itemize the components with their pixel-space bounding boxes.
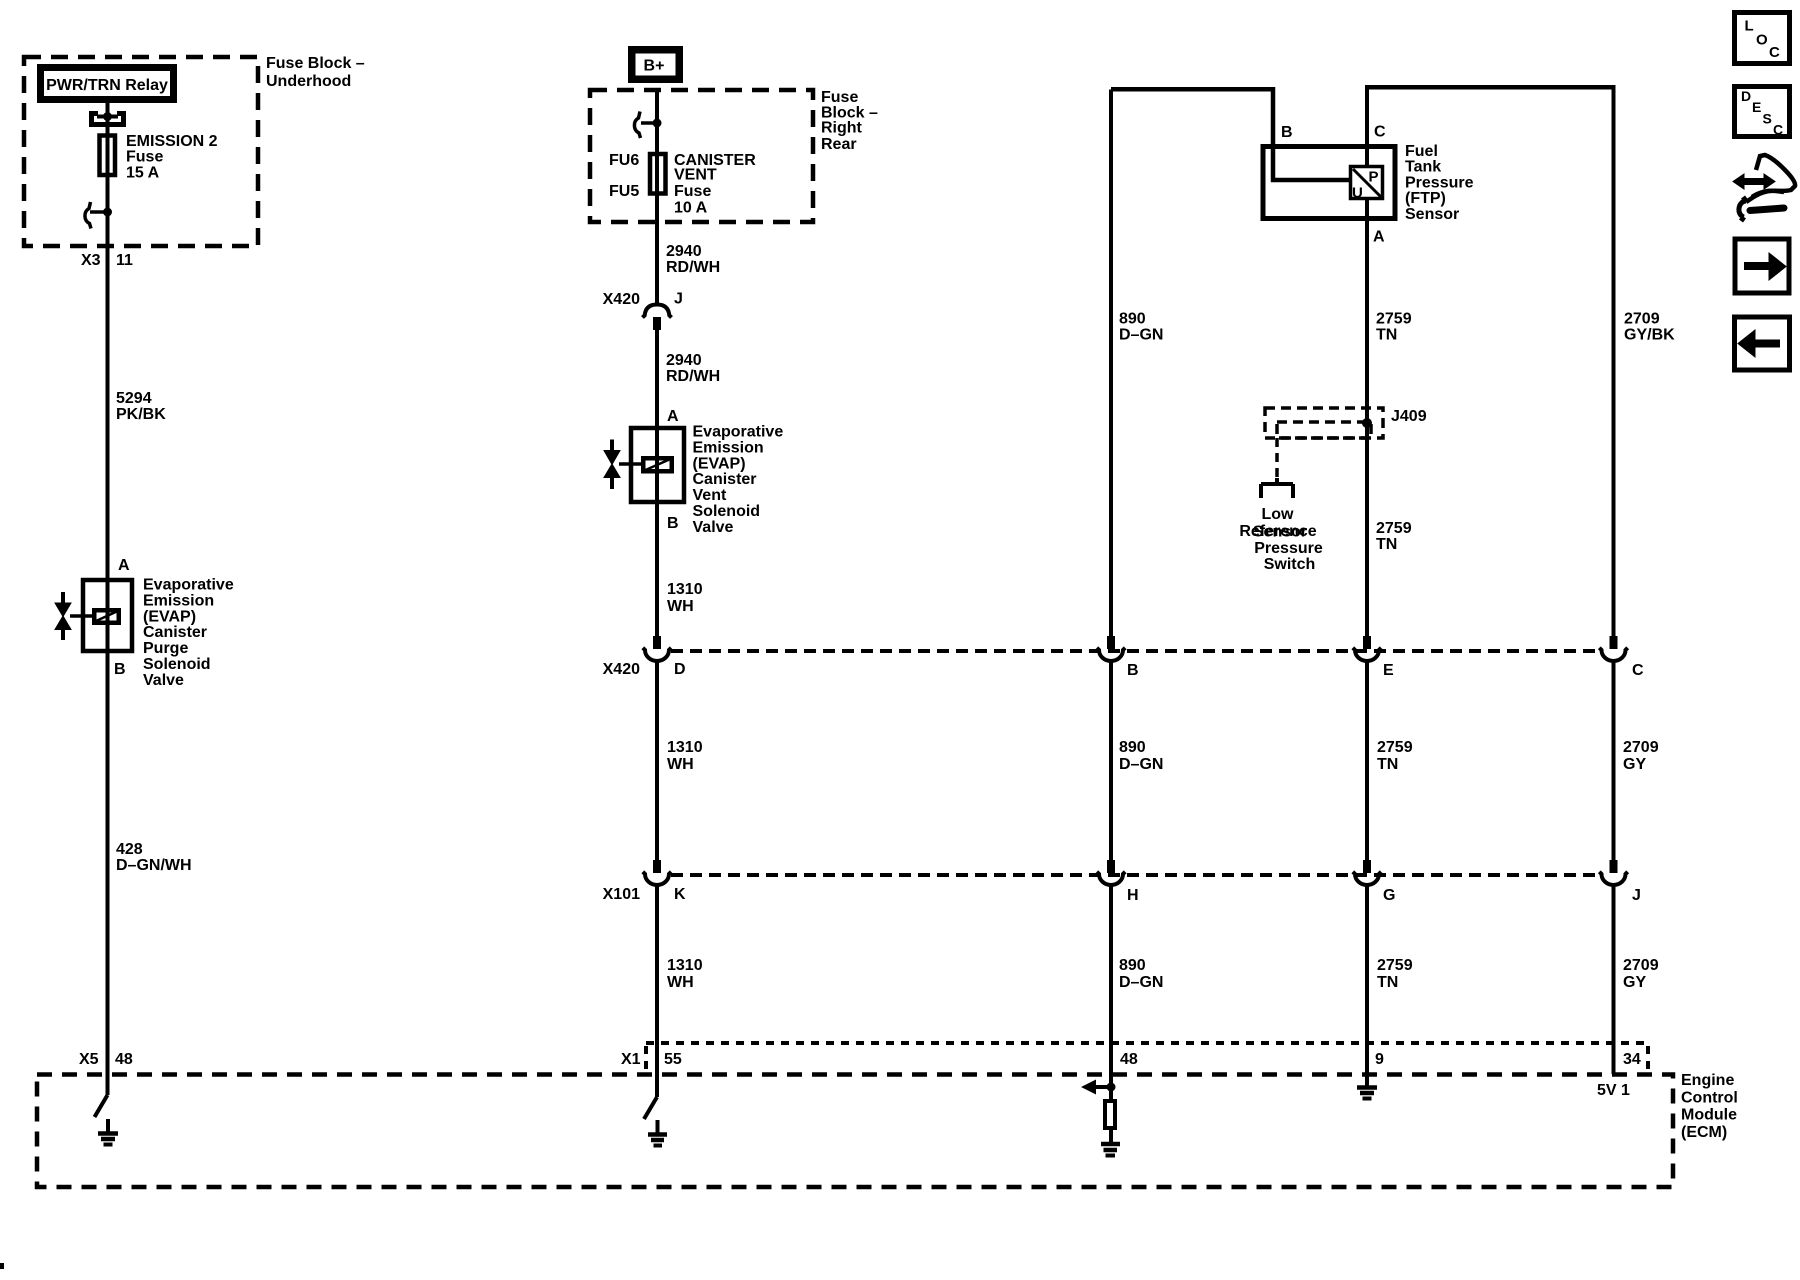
svg-text:Canister: Canister <box>693 471 757 488</box>
svg-text:Fuse: Fuse <box>126 149 163 166</box>
svg-text:X420: X420 <box>603 291 640 308</box>
svg-text:X1: X1 <box>621 1051 641 1068</box>
svg-text:Tank: Tank <box>1405 159 1441 176</box>
svg-text:D–GN: D–GN <box>1119 327 1163 344</box>
svg-text:Engine: Engine <box>1681 1072 1734 1089</box>
wire resistor to ground col3 <box>1109 1128 1113 1143</box>
svg-text:Canister: Canister <box>143 624 207 641</box>
connector X420 C pin and cup <box>1610 636 1618 649</box>
svg-text:2759: 2759 <box>1376 520 1412 537</box>
svg-text:B: B <box>1281 124 1293 141</box>
svg-text:Module: Module <box>1681 1107 1737 1124</box>
svg-text:B: B <box>114 661 126 678</box>
svg-text:1310: 1310 <box>667 957 703 974</box>
svg-text:A: A <box>118 557 130 574</box>
wire col5 vertical <box>1612 87 1616 636</box>
ECM internal resistor col3 <box>1105 1101 1115 1128</box>
svg-text:Fuse Block –: Fuse Block – <box>266 55 365 72</box>
svg-text:Switch: Switch <box>1264 556 1316 573</box>
ground symbol col1 <box>106 1119 110 1133</box>
purge solenoid coil <box>94 610 119 623</box>
svg-text:Pressure: Pressure <box>1405 174 1474 191</box>
wire col3 X101 to ECM <box>1109 885 1113 1099</box>
svg-text:RD/WH: RD/WH <box>666 368 720 385</box>
B+ box <box>632 50 680 80</box>
svg-text:34: 34 <box>1623 1051 1641 1068</box>
svg-text:2940: 2940 <box>666 243 702 260</box>
svg-text:TN: TN <box>1377 756 1398 773</box>
svg-text:(ECM): (ECM) <box>1681 1124 1727 1141</box>
svg-text:D: D <box>1741 88 1751 104</box>
svg-text:PWR/TRN Relay: PWR/TRN Relay <box>46 77 168 94</box>
wire col2 from fuse block to X420 J <box>655 90 659 304</box>
svg-text:Valve: Valve <box>143 672 184 689</box>
ECM ground kink col1 <box>95 1095 108 1117</box>
svg-text:Low: Low <box>1262 506 1295 523</box>
SEC1 <box>590 50 813 1146</box>
wire col2 X101 to ECM <box>655 885 659 1097</box>
svg-text:Sensor: Sensor <box>1405 206 1459 223</box>
wire col4 sensor pin A to X420 <box>1365 199 1369 636</box>
svg-text:J: J <box>1632 887 1641 904</box>
svg-text:Emission: Emission <box>693 439 764 456</box>
svg-text:Evaporative: Evaporative <box>693 424 784 441</box>
svg-text:2759: 2759 <box>1376 311 1412 328</box>
SEC2 <box>671 87 1628 1155</box>
EVAP purge solenoid valve box <box>83 580 132 651</box>
svg-text:B+: B+ <box>644 58 665 75</box>
svg-text:D–GN/WH: D–GN/WH <box>116 857 192 874</box>
svg-text:J: J <box>674 291 683 308</box>
svg-text:48: 48 <box>1120 1051 1138 1068</box>
svg-text:(EVAP): (EVAP) <box>143 608 196 625</box>
connector X420 D pin and cup <box>653 636 661 649</box>
sidebar back arrow box <box>1735 317 1790 370</box>
svg-text:WH: WH <box>667 974 694 991</box>
EVAP canister vent solenoid box <box>631 428 684 502</box>
dashed wire to pressure switch <box>1275 438 1279 478</box>
svg-text:D–GN: D–GN <box>1119 756 1163 773</box>
wire col5 X101 to ECM <box>1612 885 1616 1074</box>
vent solenoid coil <box>643 458 672 471</box>
sidebar squiggle arrow+wrench icon <box>1737 178 1770 185</box>
fuse CANISTER VENT 10A <box>650 154 666 194</box>
svg-text:Rear: Rear <box>821 136 857 153</box>
svg-text:2709: 2709 <box>1623 957 1659 974</box>
svg-text:11: 11 <box>116 252 133 269</box>
svg-text:15 A: 15 A <box>126 164 160 181</box>
fuse block underhood dashed box <box>24 57 258 246</box>
svg-text:A: A <box>667 408 679 425</box>
svg-text:L: L <box>1745 18 1754 35</box>
svg-text:G: G <box>1383 887 1395 904</box>
svg-text:D–GN: D–GN <box>1119 974 1163 991</box>
connector X420 E pin and cup <box>1363 636 1371 649</box>
svg-text:2759: 2759 <box>1377 957 1413 974</box>
wire col2 J to solenoid <box>655 330 659 636</box>
svg-text:Fuel: Fuel <box>1405 143 1438 160</box>
SEC3 <box>37 1043 1673 1187</box>
sidebar DESC box <box>1735 87 1790 137</box>
connector X420 B pin and cup <box>1107 636 1115 649</box>
wire col1 main vertical <box>106 103 110 1095</box>
svg-text:Solenoid: Solenoid <box>143 656 211 673</box>
svg-text:FU6: FU6 <box>609 152 639 169</box>
svg-text:GY: GY <box>1623 756 1646 773</box>
svg-text:48: 48 <box>115 1051 133 1068</box>
svg-text:X5: X5 <box>79 1051 99 1068</box>
FTP sensor U/P box <box>1351 167 1383 199</box>
svg-text:WH: WH <box>667 756 694 773</box>
svg-text:Control: Control <box>1681 1089 1738 1106</box>
svg-text:X101: X101 <box>603 886 640 903</box>
svg-text:TN: TN <box>1377 974 1398 991</box>
svg-text:E: E <box>1383 662 1394 679</box>
page corner mark <box>0 1263 4 1269</box>
svg-text:2759: 2759 <box>1377 739 1413 756</box>
ECM dashed box <box>37 1075 1673 1188</box>
svg-text:C: C <box>1632 662 1644 679</box>
svg-text:E: E <box>1752 99 1761 115</box>
svg-text:Pressure: Pressure <box>1254 540 1323 557</box>
top horizontal wire col4 to col5 <box>1365 85 1616 90</box>
svg-text:10 A: 10 A <box>674 200 708 217</box>
svg-text:5294: 5294 <box>116 390 152 407</box>
svg-text:H: H <box>1127 887 1139 904</box>
wire col3 X420 to X101 <box>1109 661 1113 860</box>
svg-text:(EVAP): (EVAP) <box>693 455 746 472</box>
svg-text:D: D <box>674 661 686 678</box>
svg-text:WH: WH <box>667 598 694 615</box>
J409 splice dashed boxes <box>1265 408 1383 438</box>
svg-text:Valve: Valve <box>693 519 734 536</box>
ground symbol col4 <box>1357 1085 1377 1090</box>
dashed harness line X420 row <box>671 649 1600 653</box>
connector X101 G pin and cup <box>1363 860 1371 873</box>
svg-text:5V 1: 5V 1 <box>1597 1082 1630 1099</box>
svg-text:B: B <box>1127 662 1139 679</box>
inline connector X420 J dome <box>643 305 672 318</box>
connector X101 J pin and cup <box>1610 860 1618 873</box>
svg-text:X3: X3 <box>81 252 101 269</box>
purge valve symbol <box>61 592 65 640</box>
svg-text:C: C <box>1773 122 1783 138</box>
ECM internal left arrow col3 <box>1090 1085 1111 1089</box>
sidebar next arrow box <box>1735 239 1789 293</box>
hook connector symbol col2 <box>641 121 655 125</box>
dashed harness line X101 row <box>671 873 1600 877</box>
wire col3 vertical <box>1109 90 1113 637</box>
svg-text:890: 890 <box>1119 739 1146 756</box>
svg-text:P: P <box>1369 169 1379 186</box>
svg-text:55: 55 <box>664 1051 682 1068</box>
svg-text:Underhood: Underhood <box>266 73 351 90</box>
svg-text:TN: TN <box>1376 536 1397 553</box>
wire col4 X420 to X101 <box>1365 661 1369 860</box>
svg-text:PK/BK: PK/BK <box>116 406 166 423</box>
svg-text:890: 890 <box>1119 311 1146 328</box>
wire col5 X420 to X101 <box>1612 661 1616 860</box>
svg-text:GY/BK: GY/BK <box>1624 327 1675 344</box>
svg-text:FU5: FU5 <box>609 183 639 200</box>
svg-text:2709: 2709 <box>1623 739 1659 756</box>
wire col3 top bend to sensor pin B <box>1111 89 1351 182</box>
svg-text:O: O <box>1756 32 1768 49</box>
svg-text:890: 890 <box>1119 957 1146 974</box>
svg-text:2940: 2940 <box>666 352 702 369</box>
ECM ground kink col2 <box>644 1097 657 1119</box>
svg-text:J409: J409 <box>1391 408 1427 425</box>
svg-text:Sensor: Sensor <box>1253 524 1307 541</box>
svg-text:S: S <box>1763 111 1772 127</box>
low reference pressure switch symbol <box>1261 478 1293 498</box>
svg-text:Fuse: Fuse <box>674 183 711 200</box>
fuse block right rear dashed box <box>590 90 813 222</box>
svg-text:Evaporative: Evaporative <box>143 577 234 594</box>
svg-text:X420: X420 <box>603 661 640 678</box>
svg-text:9: 9 <box>1375 1051 1384 1068</box>
vent valve symbol <box>610 440 614 490</box>
svg-text:K: K <box>674 886 686 903</box>
wire col2 X420 to X101 <box>655 661 659 860</box>
svg-text:TN: TN <box>1376 327 1397 344</box>
svg-text:C: C <box>1374 124 1386 141</box>
svg-text:RD/WH: RD/WH <box>666 259 720 276</box>
sidebar LOC box <box>1735 13 1790 64</box>
svg-text:GY: GY <box>1623 974 1646 991</box>
svg-text:VENT: VENT <box>674 167 717 184</box>
svg-text:Purge: Purge <box>143 640 188 657</box>
svg-text:B: B <box>667 515 679 532</box>
PWR/TRN relay box <box>41 68 174 100</box>
svg-text:428: 428 <box>116 841 143 858</box>
fuse EMISSION 2 15A <box>100 136 116 176</box>
ground symbol col2 <box>656 1120 660 1134</box>
svg-text:Solenoid: Solenoid <box>693 503 761 520</box>
ground symbol col3 <box>1101 1142 1120 1147</box>
hook connector symbol col1 <box>90 210 105 214</box>
svg-text:U: U <box>1352 185 1363 202</box>
svg-text:2709: 2709 <box>1624 311 1660 328</box>
wire col4 X101 to ECM <box>1365 885 1369 1087</box>
svg-text:1310: 1310 <box>667 581 703 598</box>
relay terminal bracket <box>89 114 126 125</box>
connector X101 K pin and cup <box>653 860 661 873</box>
svg-text:C: C <box>1769 44 1780 61</box>
wire col4 sensor pin C <box>1365 87 1369 166</box>
svg-text:Emission: Emission <box>143 592 214 609</box>
svg-text:(FTP): (FTP) <box>1405 190 1446 207</box>
SEC4 <box>1733 13 1795 371</box>
svg-text:Vent: Vent <box>693 487 727 504</box>
FTP sensor outer box <box>1263 147 1395 219</box>
connector X101 H pin and cup <box>1107 860 1115 873</box>
svg-text:A: A <box>1373 229 1385 246</box>
svg-text:1310: 1310 <box>667 739 703 756</box>
ECM inner dotted notch <box>646 1041 1648 1045</box>
svg-text:EMISSION 2: EMISSION 2 <box>126 133 218 150</box>
svg-text:Right: Right <box>821 120 863 137</box>
